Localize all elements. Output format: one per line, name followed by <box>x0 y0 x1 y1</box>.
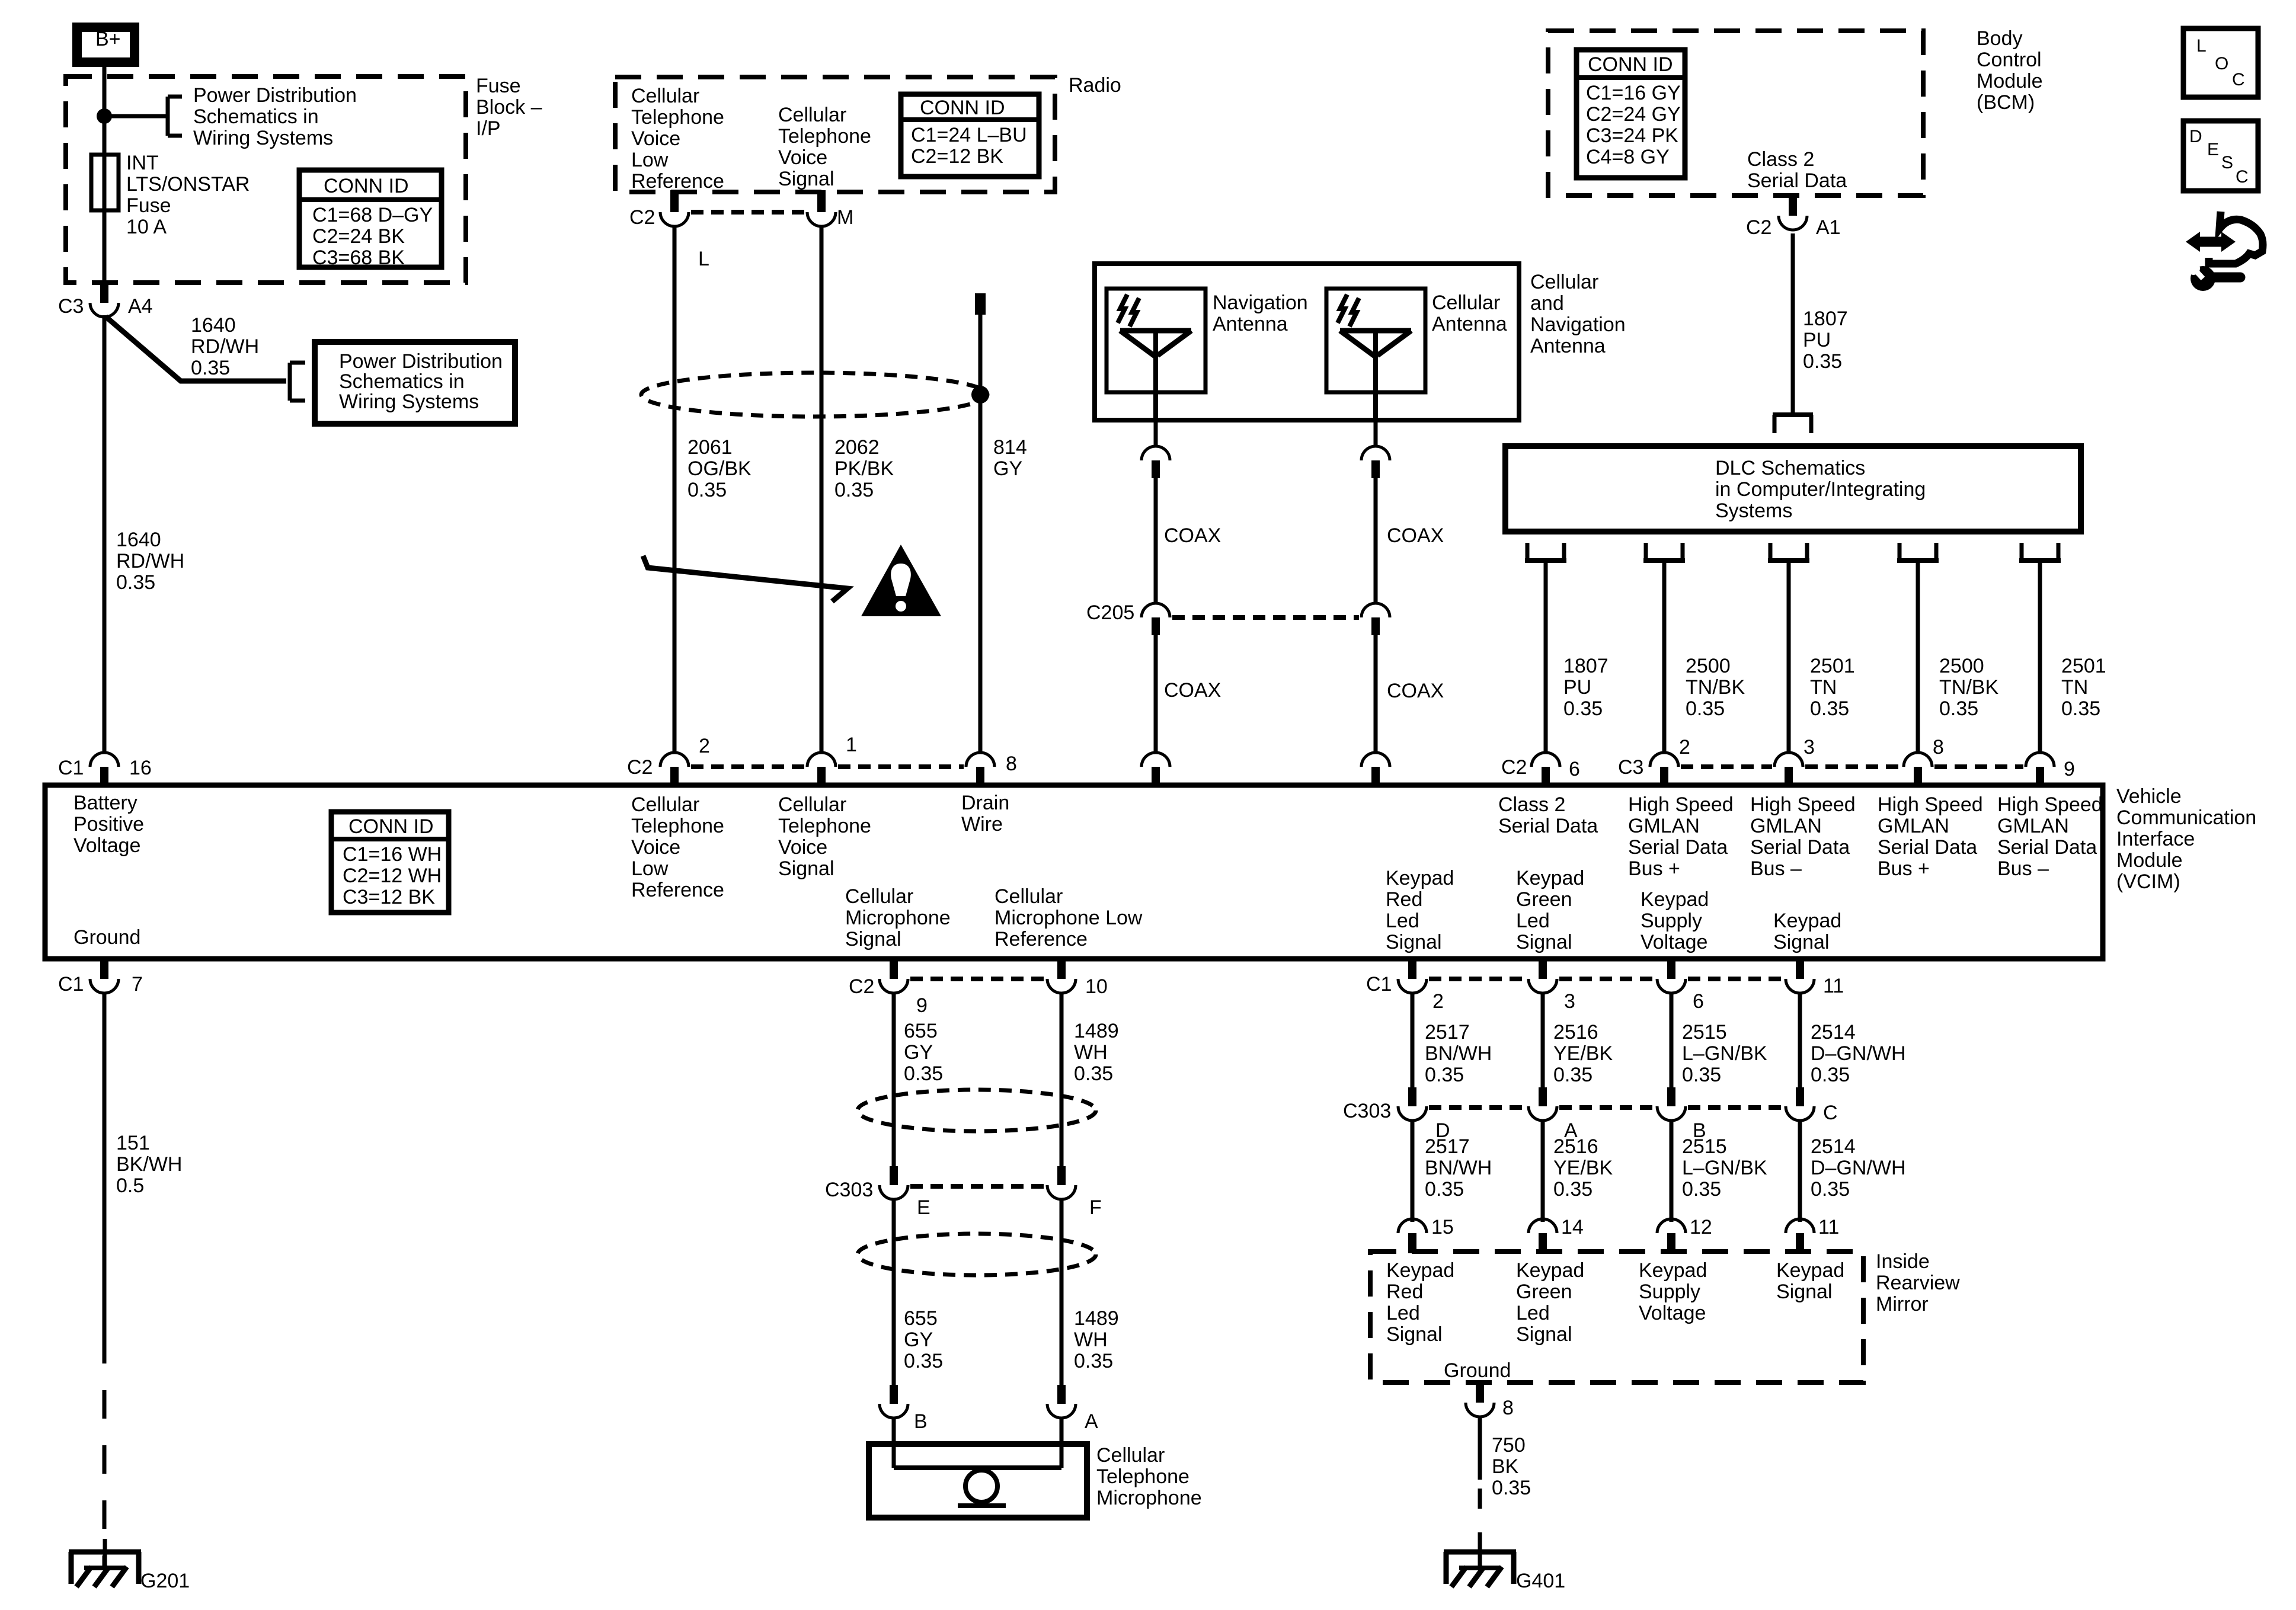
navigation antenna symbol <box>1120 328 1191 334</box>
svg-text:Schematics in: Schematics in <box>339 370 465 393</box>
keypad wire C303 to mirror x=2603 <box>1541 1121 1545 1222</box>
svg-text:7: 7 <box>132 973 143 996</box>
svg-text:D–GN/WH: D–GN/WH <box>1811 1157 1906 1179</box>
svg-text:C1=24 L–BU: C1=24 L–BU <box>911 124 1027 146</box>
svg-text:Led: Led <box>1386 1302 1420 1324</box>
connector C2 pin 2 at VCIM top <box>660 753 689 767</box>
svg-text:GMLAN: GMLAN <box>1878 815 1949 837</box>
wire into microphone A <box>1060 1418 1064 1468</box>
svg-text:9: 9 <box>2064 758 2075 780</box>
reference bracket to Power Distribution Schematics (fuse block) <box>166 97 170 136</box>
svg-text:BK/WH: BK/WH <box>116 1153 182 1176</box>
svg-text:Navigation: Navigation <box>1213 292 1308 314</box>
svg-text:I/P: I/P <box>476 117 501 140</box>
svg-text:CONN ID: CONN ID <box>920 97 1005 119</box>
dashed connector link C205 <box>1172 615 1359 620</box>
svg-text:Bus –: Bus – <box>1997 857 2049 880</box>
svg-text:Bus –: Bus – <box>1750 857 1802 880</box>
svg-text:OG/BK: OG/BK <box>687 457 752 480</box>
svg-text:CONN ID: CONN ID <box>324 175 409 197</box>
svg-text:COAX: COAX <box>1387 680 1444 702</box>
svg-text:High Speed: High Speed <box>1997 793 2103 816</box>
svg-text:2517: 2517 <box>1425 1135 1470 1158</box>
svg-text:GY: GY <box>904 1329 933 1351</box>
svg-text:2515: 2515 <box>1682 1135 1727 1158</box>
svg-text:COAX: COAX <box>1164 679 1221 702</box>
svg-text:C: C <box>2232 70 2245 89</box>
svg-text:0.35: 0.35 <box>1553 1178 1593 1201</box>
svg-text:Cellular: Cellular <box>1530 271 1598 293</box>
connector C1 keypad pin at VCIM bottom 1 <box>1408 957 1416 979</box>
svg-text:2062: 2062 <box>834 436 880 459</box>
svg-text:Green: Green <box>1516 888 1572 911</box>
svg-text:Systems: Systems <box>1715 500 1792 522</box>
svg-text:Signal: Signal <box>1516 1323 1572 1346</box>
svg-text:0.35: 0.35 <box>1811 1064 1850 1086</box>
svg-text:0.35: 0.35 <box>1074 1062 1113 1085</box>
wire from DLC to VCIM column 5 <box>2038 561 2042 753</box>
service tool icon <box>2209 212 2263 264</box>
svg-text:Block –: Block – <box>476 96 542 119</box>
svg-text:16: 16 <box>129 757 152 779</box>
svg-text:10: 10 <box>1085 975 1108 998</box>
keypad wire C303 to mirror x=2383 <box>1411 1121 1415 1222</box>
keypad wire VCIM to C303 x=2603 <box>1541 993 1545 1087</box>
connector C2 pin M at radio bottom <box>817 190 826 212</box>
ground G201 symbol <box>69 1550 141 1555</box>
wire 1489 WH lower segment <box>1060 1199 1064 1385</box>
cellular and navigation antenna module box <box>1095 264 1519 420</box>
wire 151 BK/WH dashed segment <box>103 1335 107 1567</box>
svg-text:C2=24 BK: C2=24 BK <box>312 225 405 248</box>
drain wire terminal <box>975 293 986 315</box>
svg-text:Bus +: Bus + <box>1628 857 1680 880</box>
svg-text:Vehicle: Vehicle <box>2116 785 2182 808</box>
svg-text:E: E <box>2207 140 2219 159</box>
svg-text:2500: 2500 <box>1939 655 1984 677</box>
svg-text:2500: 2500 <box>1686 655 1731 677</box>
connector pin 8 at VCIM top <box>966 753 994 767</box>
svg-text:C205: C205 <box>1086 601 1134 624</box>
svg-text:in Computer/Integrating: in Computer/Integrating <box>1715 478 1926 501</box>
drain wire 814 GY <box>978 315 983 753</box>
svg-text:Serial Data: Serial Data <box>1747 169 1847 192</box>
svg-text:Class 2: Class 2 <box>1747 148 1814 171</box>
CONN ID table of radio <box>901 94 1039 177</box>
wire 655 GY upper segment <box>892 993 896 1166</box>
connector at mirror top 3 <box>1657 1219 1686 1233</box>
CONN ID table of fuse block <box>299 170 442 267</box>
svg-text:0.35: 0.35 <box>116 571 155 594</box>
svg-text:C1: C1 <box>58 757 84 779</box>
connector C205 on cell coax <box>1361 603 1390 617</box>
svg-text:2517: 2517 <box>1425 1021 1470 1044</box>
svg-text:Antenna: Antenna <box>1432 313 1507 335</box>
svg-text:F: F <box>1089 1196 1102 1219</box>
svg-text:Class 2: Class 2 <box>1498 793 1565 816</box>
svg-text:C2=24 GY: C2=24 GY <box>1586 103 1681 126</box>
dashed connector link C2 mic <box>910 977 1045 981</box>
bracket under DLC box wire 1 <box>1526 543 1530 561</box>
svg-text:Ground: Ground <box>1444 1359 1511 1382</box>
svg-text:Microphone: Microphone <box>845 907 951 929</box>
radio dashed box <box>615 77 1055 192</box>
keypad wire VCIM to C303 x=2820 <box>1670 993 1674 1087</box>
svg-text:0.35: 0.35 <box>1682 1064 1721 1086</box>
svg-text:C1=16 WH: C1=16 WH <box>343 843 442 866</box>
svg-text:Fuse: Fuse <box>476 75 521 97</box>
svg-text:C4=8 GY: C4=8 GY <box>1586 146 1670 168</box>
svg-text:Keypad: Keypad <box>1641 888 1709 911</box>
wire 1489 WH upper segment <box>1060 993 1064 1166</box>
svg-text:Cellular: Cellular <box>778 793 846 816</box>
svg-text:RD/WH: RD/WH <box>116 550 184 572</box>
connector at mirror top 4 <box>1786 1219 1814 1233</box>
svg-text:Battery: Battery <box>73 792 137 814</box>
svg-text:COAX: COAX <box>1164 524 1221 547</box>
connector pin B at microphone <box>890 1385 898 1404</box>
CONN ID table of VCIM <box>331 812 449 913</box>
svg-text:YE/BK: YE/BK <box>1553 1042 1613 1065</box>
svg-text:Keypad: Keypad <box>1516 867 1584 889</box>
connector pin 8 at mirror bottom (ground) <box>1476 1381 1484 1403</box>
bracket under DLC box wire 5 <box>2020 543 2024 561</box>
dashed connector link C2 radio <box>691 210 805 215</box>
svg-text:DLC Schematics: DLC Schematics <box>1715 457 1865 479</box>
connector C1 keypad pin at VCIM bottom 3 <box>1667 957 1675 979</box>
svg-text:Positive: Positive <box>73 813 144 836</box>
svg-text:Signal: Signal <box>778 168 834 190</box>
wire 151 BK/WH solid segment <box>103 993 107 1335</box>
connector at VCIM top x=3236 <box>1904 753 1932 767</box>
svg-text:High Speed: High Speed <box>1750 793 1856 816</box>
svg-text:1489: 1489 <box>1074 1020 1119 1042</box>
connector at mirror top 2 <box>1528 1219 1557 1233</box>
svg-text:High Speed: High Speed <box>1628 793 1734 816</box>
connector pin A at microphone <box>1057 1385 1066 1404</box>
svg-text:Voltage: Voltage <box>1639 1302 1706 1324</box>
wire 655 GY lower segment <box>892 1199 896 1385</box>
svg-text:C2: C2 <box>1501 756 1527 779</box>
svg-text:Serial Data: Serial Data <box>1498 815 1598 837</box>
svg-text:Green: Green <box>1516 1281 1572 1303</box>
connector at antenna box bottom right (cell coax) <box>1374 420 1378 446</box>
svg-text:COAX: COAX <box>1387 524 1444 547</box>
caution note pointer line <box>643 556 848 601</box>
shield ellipse mic upper <box>858 1090 1096 1131</box>
wire branch to power distribution reference <box>104 114 168 119</box>
connector C303 pin F on mic low reference <box>1057 1166 1066 1185</box>
svg-text:1807: 1807 <box>1563 655 1609 677</box>
connector C1 pin 7 at VCIM bottom <box>100 957 108 979</box>
svg-text:6: 6 <box>1693 990 1704 1013</box>
svg-text:(VCIM): (VCIM) <box>2116 870 2180 893</box>
cellular antenna symbol <box>1340 328 1411 334</box>
svg-text:C2=12 WH: C2=12 WH <box>343 865 442 887</box>
svg-text:2516: 2516 <box>1553 1135 1598 1158</box>
svg-text:0.35: 0.35 <box>1425 1178 1464 1201</box>
svg-text:8: 8 <box>1933 736 1944 758</box>
svg-text:Low: Low <box>631 857 669 880</box>
cell COAX wire lower segment <box>1374 635 1378 753</box>
BCM dashed box Body Control Module <box>1548 31 1923 196</box>
svg-text:8: 8 <box>1502 1397 1514 1419</box>
svg-text:Schematics in: Schematics in <box>193 105 319 128</box>
svg-text:B+: B+ <box>95 28 121 50</box>
connector at VCIM top x=3018 <box>1774 753 1803 767</box>
reference box Power Distribution Schematics in Wiring Systems <box>315 342 515 424</box>
svg-text:C303: C303 <box>1343 1100 1391 1122</box>
svg-text:Serial Data: Serial Data <box>1997 836 2097 859</box>
svg-text:0.35: 0.35 <box>1682 1178 1721 1201</box>
svg-text:L: L <box>698 248 709 270</box>
connector at VCIM top x=2608 <box>1531 753 1560 767</box>
svg-text:Reference: Reference <box>994 928 1088 950</box>
svg-text:0.35: 0.35 <box>834 479 874 501</box>
svg-text:Microphone: Microphone <box>1096 1487 1202 1509</box>
cellular antenna inner box <box>1326 289 1425 392</box>
fuse INT LTS/ONSTAR 10A symbol <box>91 155 119 210</box>
svg-text:151: 151 <box>116 1132 150 1154</box>
svg-text:D–GN/WH: D–GN/WH <box>1811 1042 1906 1065</box>
svg-text:Serial Data: Serial Data <box>1878 836 1977 859</box>
caution triangle symbol <box>861 545 941 616</box>
connector C303 keypad 1 <box>1408 1087 1416 1106</box>
keypad wire C303 to mirror x=2820 <box>1670 1121 1674 1222</box>
svg-text:CONN ID: CONN ID <box>348 815 434 838</box>
svg-text:GMLAN: GMLAN <box>1628 815 1700 837</box>
svg-text:Keypad: Keypad <box>1776 1259 1844 1282</box>
svg-text:2501: 2501 <box>1810 655 1855 677</box>
svg-text:Wiring Systems: Wiring Systems <box>339 391 479 413</box>
svg-text:PU: PU <box>1803 329 1831 351</box>
svg-text:Control: Control <box>1977 49 2042 71</box>
svg-text:C2: C2 <box>1746 216 1771 239</box>
svg-text:1640: 1640 <box>191 314 236 337</box>
svg-text:RD/WH: RD/WH <box>191 335 259 358</box>
svg-text:Signal: Signal <box>1386 1323 1443 1346</box>
svg-text:PU: PU <box>1563 676 1591 699</box>
svg-text:750: 750 <box>1492 1434 1526 1457</box>
svg-text:Led: Led <box>1386 910 1419 932</box>
DESC legend box <box>2183 121 2258 191</box>
connector C205 on nav coax <box>1141 603 1170 617</box>
dashed connector link C1 keypad <box>1429 977 1526 981</box>
svg-text:L: L <box>2196 36 2207 56</box>
svg-text:Voltage: Voltage <box>73 834 140 857</box>
svg-text:C2=12 BK: C2=12 BK <box>911 145 1003 168</box>
svg-text:PK/BK: PK/BK <box>834 457 894 480</box>
svg-text:2501: 2501 <box>2061 655 2106 677</box>
svg-text:Microphone Low: Microphone Low <box>994 907 1143 929</box>
svg-text:0.35: 0.35 <box>191 357 230 379</box>
connector at VCIM top for nav coax <box>1141 753 1170 767</box>
wire 750 BK solid segment <box>1478 1417 1482 1480</box>
wire from DLC to VCIM column 4 <box>1916 561 1920 753</box>
svg-text:Drain: Drain <box>961 792 1009 814</box>
navigation antenna inner box <box>1107 289 1205 392</box>
nav COAX wire lower segment <box>1154 635 1158 753</box>
svg-text:2514: 2514 <box>1811 1135 1856 1158</box>
svg-text:Serial Data: Serial Data <box>1750 836 1850 859</box>
connector C3 pin A4 at fuse block bottom <box>100 281 108 303</box>
svg-text:0.35: 0.35 <box>1563 697 1603 720</box>
svg-text:0.35: 0.35 <box>1939 697 1978 720</box>
microphone internal bus <box>894 1465 1061 1470</box>
svg-text:High Speed: High Speed <box>1878 793 1983 816</box>
wire from DLC to VCIM column 3 <box>1787 561 1791 753</box>
svg-text:Low: Low <box>631 149 669 171</box>
inside rearview mirror dashed box <box>1370 1251 1863 1382</box>
svg-text:Rearview: Rearview <box>1876 1272 1960 1294</box>
svg-text:Module: Module <box>1977 70 2043 92</box>
dashed connector link VCIM C2 <box>691 764 805 769</box>
svg-text:Cellular: Cellular <box>994 885 1063 908</box>
shield ellipse around radio wires <box>641 373 987 417</box>
keypad wire VCIM to C303 x=3037 <box>1798 993 1802 1087</box>
connector C1 keypad pin at VCIM bottom 2 <box>1539 957 1547 979</box>
svg-text:Keypad: Keypad <box>1773 910 1841 932</box>
svg-text:2: 2 <box>699 735 710 757</box>
svg-text:GY: GY <box>904 1041 933 1064</box>
svg-text:Red: Red <box>1386 888 1422 911</box>
dashed connector link C303 keypad <box>1429 1105 1526 1110</box>
svg-text:0.35: 0.35 <box>2061 697 2100 720</box>
svg-text:Voltage: Voltage <box>1641 931 1707 953</box>
svg-text:BK: BK <box>1492 1455 1519 1478</box>
svg-text:G401: G401 <box>1516 1570 1565 1592</box>
svg-text:YE/BK: YE/BK <box>1553 1157 1613 1179</box>
svg-text:E: E <box>917 1196 930 1219</box>
bracket into DLC reference box <box>1773 412 1813 417</box>
svg-text:2514: 2514 <box>1811 1021 1856 1044</box>
wire from DLC to VCIM column 2 <box>1662 561 1667 753</box>
svg-text:2061: 2061 <box>687 436 733 459</box>
svg-text:Voice: Voice <box>778 146 827 169</box>
svg-text:Interface: Interface <box>2116 828 2195 850</box>
svg-text:0.35: 0.35 <box>904 1350 943 1372</box>
svg-text:L–GN/BK: L–GN/BK <box>1682 1042 1767 1065</box>
svg-text:Antenna: Antenna <box>1213 313 1288 335</box>
svg-text:S: S <box>2221 153 2233 172</box>
svg-text:C3: C3 <box>58 295 84 318</box>
svg-text:655: 655 <box>904 1020 938 1042</box>
svg-text:6: 6 <box>1569 758 1580 780</box>
svg-text:Voice: Voice <box>631 127 680 150</box>
connector C2 pin 9 at VCIM bottom <box>890 957 898 979</box>
svg-text:Mirror: Mirror <box>1876 1293 1929 1315</box>
svg-text:0.35: 0.35 <box>687 479 727 501</box>
svg-text:Antenna: Antenna <box>1530 335 1606 357</box>
svg-text:Wiring Systems: Wiring Systems <box>193 127 333 149</box>
svg-text:2515: 2515 <box>1682 1021 1727 1044</box>
svg-text:8: 8 <box>1006 753 1017 775</box>
connector at VCIM top x=3442 <box>2026 753 2054 767</box>
junction dot on B+ feed <box>97 108 112 124</box>
CONN ID table of BCM <box>1576 50 1685 178</box>
svg-text:Ground: Ground <box>73 926 140 949</box>
svg-text:Red: Red <box>1386 1281 1423 1303</box>
LOC legend box <box>2183 28 2258 97</box>
svg-text:12: 12 <box>1690 1216 1712 1238</box>
svg-text:Navigation: Navigation <box>1530 313 1626 336</box>
svg-text:Body: Body <box>1977 27 2023 50</box>
svg-text:0.35: 0.35 <box>1803 350 1842 373</box>
VCIM module box Vehicle Communication Interface Module <box>45 785 2103 959</box>
wire 2062 PK/BK radio M to VCIM pin 1 <box>820 226 824 753</box>
svg-text:0.35: 0.35 <box>1425 1064 1464 1086</box>
svg-text:C1=68 D–GY: C1=68 D–GY <box>312 204 433 226</box>
svg-text:and: and <box>1530 292 1564 315</box>
svg-text:Cellular: Cellular <box>845 885 913 908</box>
connector C303 keypad 4 <box>1796 1087 1804 1106</box>
connector C2 pin A1 at BCM bottom <box>1789 194 1797 216</box>
B+ battery positive terminal <box>77 27 135 62</box>
keypad wire C303 to mirror x=3037 <box>1798 1121 1802 1222</box>
svg-text:CONN ID: CONN ID <box>1588 53 1673 76</box>
svg-text:GMLAN: GMLAN <box>1750 815 1822 837</box>
svg-text:L–GN/BK: L–GN/BK <box>1682 1157 1767 1179</box>
svg-text:Bus +: Bus + <box>1878 857 1930 880</box>
connector C303 keypad 3 <box>1667 1087 1675 1106</box>
svg-text:C2: C2 <box>849 975 874 998</box>
svg-text:C3=24 PK: C3=24 PK <box>1586 124 1678 147</box>
wire into microphone B <box>892 1418 896 1468</box>
svg-text:Signal: Signal <box>845 928 901 950</box>
svg-text:Keypad: Keypad <box>1639 1259 1707 1282</box>
svg-text:Keypad: Keypad <box>1516 1259 1584 1282</box>
connector C1 keypad pin at VCIM bottom 4 <box>1796 957 1804 979</box>
svg-text:Communication: Communication <box>2116 806 2256 829</box>
svg-text:M: M <box>837 206 853 229</box>
svg-text:TN: TN <box>2061 676 2088 699</box>
svg-text:A1: A1 <box>1816 216 1841 239</box>
DLC reference box <box>1505 446 2081 532</box>
svg-text:3: 3 <box>1564 990 1575 1013</box>
svg-text:Fuse: Fuse <box>126 194 171 217</box>
svg-text:Cellular: Cellular <box>1432 292 1500 314</box>
svg-text:C1: C1 <box>1366 973 1392 996</box>
svg-text:2: 2 <box>1432 990 1444 1013</box>
dashed connector link C303 mic <box>910 1184 1045 1189</box>
wire B+ down to fuse block connector C3 <box>103 67 107 283</box>
cellular telephone microphone box <box>869 1444 1087 1518</box>
svg-text:D: D <box>2189 127 2202 146</box>
svg-text:(BCM): (BCM) <box>1977 91 2035 114</box>
svg-text:TN/BK: TN/BK <box>1939 676 1998 699</box>
svg-text:Cellular: Cellular <box>1096 1444 1165 1467</box>
svg-text:WH: WH <box>1074 1329 1108 1351</box>
connector C303 keypad 2 <box>1539 1087 1547 1106</box>
svg-text:0.35: 0.35 <box>1686 697 1725 720</box>
svg-text:Signal: Signal <box>778 857 834 880</box>
svg-text:Signal: Signal <box>1776 1281 1833 1303</box>
svg-text:Telephone: Telephone <box>631 106 724 129</box>
svg-text:C303: C303 <box>825 1179 873 1201</box>
svg-text:WH: WH <box>1074 1041 1108 1064</box>
svg-text:Wire: Wire <box>961 813 1003 836</box>
svg-text:14: 14 <box>1561 1216 1584 1238</box>
svg-text:Telephone: Telephone <box>778 815 871 837</box>
nav COAX wire upper segment <box>1154 478 1158 603</box>
diagonal branch wire to power distribution reference <box>105 316 286 381</box>
svg-text:15: 15 <box>1431 1216 1454 1238</box>
connector C2 pin L at radio bottom <box>670 190 679 212</box>
cell COAX wire upper segment <box>1374 478 1378 603</box>
svg-text:BN/WH: BN/WH <box>1425 1042 1492 1065</box>
svg-text:Voice: Voice <box>631 836 680 859</box>
svg-text:0.5: 0.5 <box>116 1174 144 1197</box>
